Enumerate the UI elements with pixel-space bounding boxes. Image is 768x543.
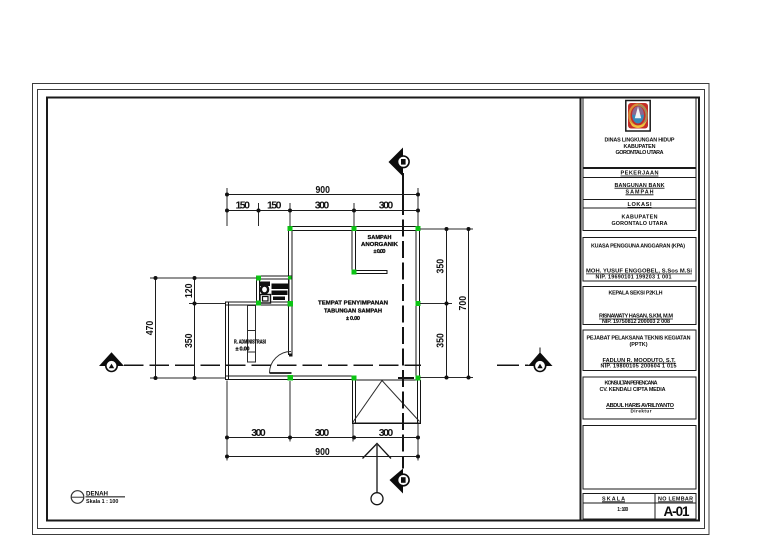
room label SAMPAH ANORGANIK bbox=[361, 235, 398, 255]
wall admin top bbox=[226, 302, 259, 305]
svg-text:KEPALA SEKSI P2KLH: KEPALA SEKSI P2KLH bbox=[609, 291, 663, 297]
svg-text:A-01: A-01 bbox=[664, 504, 690, 519]
title block left border bbox=[580, 98, 582, 521]
section marker A right bbox=[528, 348, 553, 372]
sink fixture KM/WC bbox=[260, 295, 271, 304]
svg-text:700: 700 bbox=[457, 296, 469, 311]
dim line 120/350 left bbox=[194, 278, 196, 378]
sheet outer frame bbox=[33, 84, 710, 535]
svg-text:ANORGANIK: ANORGANIK bbox=[361, 242, 398, 248]
door jamb block bbox=[289, 354, 293, 357]
KM/WC label blobs bbox=[272, 284, 289, 301]
extension lines bottom bbox=[227, 381, 418, 461]
DENAH label bbox=[71, 491, 125, 506]
svg-text:300: 300 bbox=[251, 427, 266, 439]
svg-text:SAMPAH: SAMPAH bbox=[368, 235, 392, 241]
svg-text:Skala 1 : 100: Skala 1 : 100 bbox=[86, 499, 118, 505]
sheet inner frame bbox=[47, 98, 699, 521]
svg-text:± 0.00: ± 0.00 bbox=[374, 249, 386, 255]
svg-text:DENAH: DENAH bbox=[86, 491, 109, 498]
svg-text:KUASA PENGGUNA ANGGARAN (KPA): KUASA PENGGUNA ANGGARAN (KPA) bbox=[591, 244, 685, 250]
dim line 900 top bbox=[227, 194, 418, 196]
skala / no lembar header bbox=[602, 497, 693, 503]
extension lines top bbox=[227, 188, 418, 227]
kabupaten gorontalo utara bbox=[612, 215, 668, 228]
svg-text:TABUNGAN SAMPAH: TABUNGAN SAMPAH bbox=[324, 309, 382, 315]
svg-text:NIP. 19690101 199203 1 001: NIP. 19690101 199203 1 001 bbox=[596, 275, 672, 281]
room label R. ADMINISTRASI bbox=[234, 340, 266, 353]
svg-text:900: 900 bbox=[315, 184, 330, 196]
dinas name bbox=[605, 138, 675, 156]
porch edges bbox=[352, 380, 421, 423]
dim line 300/300/300 bottom bbox=[227, 437, 418, 439]
dim line 470 left bbox=[155, 278, 157, 378]
svg-text:150: 150 bbox=[235, 200, 250, 212]
svg-text:Direktur: Direktur bbox=[631, 408, 652, 413]
konsultan box bbox=[600, 381, 675, 414]
wall left (main room, above door) bbox=[289, 227, 293, 355]
section marker A left bbox=[99, 352, 124, 371]
entrance arrow bbox=[363, 444, 392, 505]
svg-text:900: 900 bbox=[315, 446, 330, 458]
svg-text:GORONTALO UTARA: GORONTALO UTARA bbox=[612, 221, 668, 227]
wall stub bottom right bbox=[398, 377, 414, 379]
extension lines right bbox=[420, 229, 473, 378]
svg-text:350: 350 bbox=[435, 259, 447, 274]
svg-text:(PPTK): (PPTK) bbox=[630, 342, 648, 348]
svg-text:PEJABAT PELAKSANA TEKNIS KEGIA: PEJABAT PELAKSANA TEKNIS KEGIATAN bbox=[587, 336, 691, 342]
svg-text:470: 470 bbox=[144, 321, 156, 336]
dim line 900 bottom bbox=[227, 456, 418, 458]
svg-text:KABUPATEN: KABUPATEN bbox=[622, 215, 658, 221]
KPA box bbox=[586, 244, 692, 281]
svg-text:DINAS LINGKUNGAN HIDUP: DINAS LINGKUNGAN HIDUP bbox=[605, 138, 675, 144]
dim line 700 right bbox=[468, 229, 470, 378]
wall interior partition bbox=[352, 228, 387, 274]
porch roof diagonals bbox=[353, 381, 420, 423]
svg-text:R. ADMINISTRASI: R. ADMINISTRASI bbox=[234, 340, 266, 346]
bangunan bank sampah bbox=[615, 183, 665, 196]
svg-text:NIP. 19750812 200003 2 008: NIP. 19750812 200003 2 008 bbox=[602, 319, 670, 325]
section line A-A (horizontal dashed) bbox=[124, 364, 421, 366]
kepala seksi box bbox=[599, 291, 673, 325]
dim line 350/350 right bbox=[446, 229, 448, 378]
svg-text:KABUPATEN: KABUPATEN bbox=[624, 144, 656, 150]
column squares (green) bbox=[256, 226, 421, 381]
extension lines left bbox=[150, 278, 257, 378]
shelf admin room bbox=[248, 306, 256, 363]
wall top (main room) bbox=[289, 227, 420, 231]
wall right (main room) bbox=[416, 227, 420, 380]
svg-text:300: 300 bbox=[315, 427, 330, 439]
dim line 150/150/300/300 bbox=[227, 210, 418, 212]
toilet fixture KM/WC bbox=[260, 282, 271, 294]
logo kabupaten bbox=[626, 101, 650, 132]
svg-text:± 0.00: ± 0.00 bbox=[236, 347, 250, 353]
wall admin left bbox=[226, 302, 229, 380]
section line B (vertical dashed) bbox=[402, 173, 404, 198]
svg-text:300: 300 bbox=[379, 200, 394, 212]
svg-text:120: 120 bbox=[183, 283, 195, 298]
svg-text:± 0.00: ± 0.00 bbox=[346, 316, 360, 322]
svg-text:1 : 100: 1 : 100 bbox=[617, 507, 628, 513]
svg-text:300: 300 bbox=[379, 427, 394, 439]
svg-text:350: 350 bbox=[435, 333, 447, 348]
wall bottom (long) bbox=[226, 376, 357, 380]
svg-text:350: 350 bbox=[183, 333, 195, 348]
svg-text:KONSULTAN PERENCANA: KONSULTAN PERENCANA bbox=[605, 381, 658, 387]
svg-text:GORONTALO UTARA: GORONTALO UTARA bbox=[616, 150, 664, 156]
svg-text:300: 300 bbox=[315, 200, 330, 212]
svg-text:TEMPAT PENYIMPANAN: TEMPAT PENYIMPANAN bbox=[318, 301, 388, 307]
PPTK box bbox=[587, 336, 691, 370]
room label TEMPAT PENYIMPANAN TABUNGAN SAMPAH bbox=[318, 301, 388, 323]
section marker B top bbox=[389, 148, 410, 177]
section marker B bottom bbox=[390, 469, 410, 494]
svg-text:NIP. 19800105 200604 1 015: NIP. 19800105 200604 1 015 bbox=[601, 364, 677, 370]
title cells bbox=[583, 98, 696, 519]
door leaf (admin to main room) bbox=[270, 372, 292, 374]
door swing arc bbox=[270, 352, 292, 374]
svg-text:CV. KENDALI CIPTA MEDIA: CV. KENDALI CIPTA MEDIA bbox=[600, 387, 666, 393]
wall KM/WC box bbox=[257, 276, 293, 305]
svg-text:150: 150 bbox=[267, 200, 282, 212]
